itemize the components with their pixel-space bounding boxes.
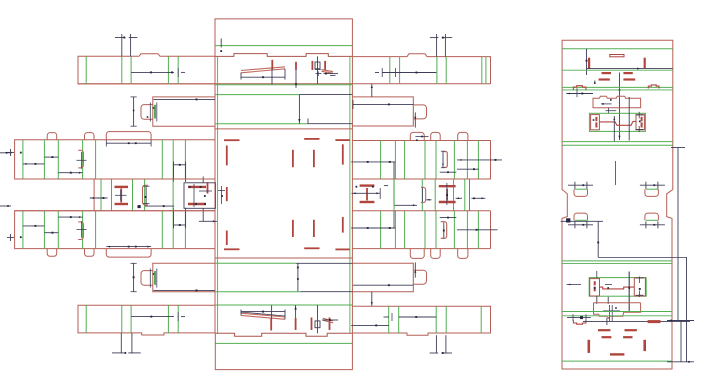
rp crease y145.2 [562, 144, 673, 146]
neckL crease 2 [111, 179, 113, 211]
strip3L crease 7 [184, 140, 186, 179]
strip4bR crease 3 [445, 306, 447, 333]
row2bL inner dim [154, 289, 216, 291]
strip4L dim b [44, 232, 58, 234]
column crease y94.6 [215, 94, 299, 96]
wedge B dim [315, 70, 338, 76]
row2L tab [141, 105, 153, 120]
strip1L crease 4 [177, 56, 179, 84]
rp step mark L [573, 86, 586, 90]
clusterA ibeam [360, 186, 375, 202]
rp center dim [618, 73, 620, 141]
neckL crease 4 [144, 179, 146, 211]
slot v 292 bot [292, 220, 294, 237]
rp tabR2 crease [646, 219, 658, 221]
strip3bL crease 0 [85, 305, 87, 333]
strip3L wide tab [106, 132, 151, 140]
strip4bR crease 4 [480, 306, 482, 333]
neckR crease 4 [421, 179, 423, 211]
strip4L right dim [174, 208, 186, 229]
slot h 335 top [335, 139, 349, 141]
slot v 325 [324, 61, 326, 70]
strip3R crease 3 [424, 141, 426, 180]
rp dim h257 [598, 256, 687, 258]
dim pair TR [430, 34, 452, 57]
rp crease y141.6 [562, 141, 673, 143]
rp center line mid [615, 161, 617, 185]
slot v 312 [311, 61, 313, 70]
slot v 313 bot [313, 220, 315, 237]
strip3L bracket [78, 150, 83, 168]
rp slot bottom center [610, 353, 624, 355]
row2bR tab crease [412, 270, 414, 284]
strip3R crease 6 [466, 141, 468, 180]
row2R tab [413, 105, 426, 119]
neckL left cut [93, 179, 95, 211]
row2bL tab crease [154, 271, 156, 285]
strip3bL crease 1 [121, 305, 123, 333]
strip4L wide tab [106, 249, 151, 258]
neckR crease 1 [434, 179, 436, 211]
slot v 226 top [226, 146, 228, 166]
rp tabL2 [574, 213, 588, 220]
rp tabL dim bot [568, 221, 593, 228]
strip3R tab1 [410, 132, 424, 140]
gapL ext dim [199, 177, 217, 223]
strip4L crease 0 [22, 211, 24, 249]
rp green box top [589, 113, 645, 131]
rp slot v BL [587, 340, 590, 353]
strip3bL dim [131, 312, 185, 321]
neckR bracket [421, 187, 426, 202]
column crease y305 [215, 304, 352, 306]
rp tabR2 [645, 213, 659, 220]
strip4bR crease 1 [398, 306, 400, 333]
row2R inner dim [353, 100, 413, 109]
strip3R dim v [394, 162, 417, 206]
slot h 224 bot [224, 248, 240, 250]
strip4R tab1 [410, 249, 424, 259]
slot v 296 [295, 62, 297, 70]
slot v 271b [270, 319, 272, 331]
strip3R crease 4 [435, 141, 437, 180]
wide tab dim b [106, 246, 151, 248]
neckL bracket [142, 185, 147, 205]
dim v 296 [295, 69, 297, 88]
rp tabL dim top [568, 182, 593, 189]
gapL cluster box [184, 183, 215, 209]
neckR ibeam dim [446, 183, 448, 205]
rp mark BL dim [567, 314, 591, 321]
rp tabR dim bot [640, 221, 665, 228]
square top dim line [308, 119, 352, 124]
top band wedge A dim [241, 69, 285, 80]
row2R tab crease [412, 105, 414, 119]
strip1L crease 1 [121, 56, 123, 84]
top flap outline [215, 19, 352, 56]
strip1R crease 1 [399, 57, 401, 84]
neckR ibeam [439, 186, 456, 202]
row2bR v dim [414, 262, 416, 277]
strip3L crease 5 [161, 140, 163, 179]
far-left tick a [0, 152, 12, 154]
bottom notch cut line [215, 333, 352, 336]
column left crease [217, 56, 219, 333]
rp crease y315.8 [562, 315, 672, 317]
rp outer dim A [671, 148, 685, 321]
strip4R dim v [393, 211, 395, 228]
neckL crease 1 [100, 179, 102, 211]
row2b crease line [215, 291, 352, 293]
rp tabL1 crease [575, 188, 587, 190]
neckR crease 0 [393, 179, 395, 211]
column left cut edge [214, 56, 216, 333]
rp sq TR slots [641, 117, 643, 128]
neckR right cut [469, 179, 471, 211]
square bottom cut [215, 257, 352, 259]
rp slot rect [610, 55, 624, 57]
bot band wedge A [241, 313, 285, 319]
row2bR inner dim [353, 284, 413, 286]
slot v 313 top [313, 150, 315, 167]
slot v 329b [329, 318, 331, 331]
strip3R outline [352, 141, 490, 180]
slot v 342 bot [342, 217, 344, 233]
rp crease y361.1 [562, 360, 672, 362]
bot band wedge B [323, 318, 333, 323]
strip4R crease 2 [404, 211, 406, 249]
rp slot v 644 [644, 58, 646, 68]
rp cluster top dims [593, 97, 644, 142]
strip3R tab dim [415, 136, 428, 141]
neckL crease 5 [172, 179, 174, 211]
strip4R dim c [440, 217, 457, 219]
row2bL panel [153, 263, 215, 291]
slot h 335 bot [335, 248, 349, 250]
slot v 311b [311, 318, 313, 331]
column right crease [349, 56, 351, 333]
strip3L crease 4 [95, 140, 97, 179]
dim v 317b [317, 305, 319, 333]
strip3R crease 7 [477, 141, 479, 180]
bandL bottom edge [15, 210, 215, 212]
rp tabR1 crease [646, 188, 658, 190]
rp crease y263.4 [562, 262, 672, 264]
strip3L crease 2 [57, 140, 59, 179]
strip4bR outline [352, 306, 490, 335]
row2L tab crease [154, 105, 156, 119]
strip3R bracket [441, 151, 447, 168]
strip4L tab2 [85, 249, 95, 257]
slot v 292 top [292, 150, 294, 167]
rp hat shape [593, 96, 641, 107]
row2L height dim [131, 97, 137, 126]
strip4L crease 3 [82, 211, 84, 249]
dim v 272 [271, 68, 273, 84]
clusterA dims [352, 186, 389, 199]
top band wedge B [322, 70, 333, 74]
strip4L bracket [78, 222, 83, 240]
rp crease y260.9 [562, 260, 672, 262]
column right cut edge [351, 56, 353, 333]
square bottom crease [215, 262, 296, 264]
neckL bracket dim [143, 186, 150, 204]
gapL slot v [207, 182, 209, 194]
strip3R tab2 [431, 132, 440, 140]
strip3L tab1 [47, 133, 57, 140]
strip4R crease 7 [477, 211, 479, 249]
strip4L crease 4 [95, 211, 97, 249]
top band wedge A [241, 67, 285, 73]
gapL slot top [188, 186, 206, 188]
strip4R bottom edge [352, 211, 490, 249]
neckR bracket dim [422, 188, 431, 202]
right piece outline [562, 40, 673, 369]
flap top dim tick [220, 39, 222, 53]
strip4L left tick [7, 234, 22, 241]
neckR crease 2 [453, 179, 455, 211]
strip4R crease 1 [394, 211, 396, 249]
rp sq BL [590, 279, 600, 296]
slot h 304 bot [304, 247, 319, 249]
bottom flap outline [215, 333, 352, 369]
strip3L outline [15, 140, 215, 179]
row2bR bottom dim [371, 292, 373, 307]
strip3R dim c [440, 171, 457, 173]
row2L inner dim [154, 98, 216, 100]
strip1L crease 2 [130, 56, 132, 84]
square top cut [215, 128, 352, 130]
strip4L cross tick [77, 221, 87, 238]
strip3L tab2 [85, 133, 95, 140]
bandR top edge [352, 178, 490, 180]
strip4bR dim b [351, 324, 389, 326]
square bottom dim line [296, 262, 352, 264]
small dark rect b [315, 321, 320, 328]
rp bottom dim line [583, 318, 690, 325]
rp outer tick 361 [667, 320, 694, 363]
wide tab dim [106, 140, 151, 147]
row2bL tab dim [150, 269, 157, 288]
rp crease y48.7 [562, 48, 673, 50]
rp connect top [599, 121, 636, 125]
strip4L dim c [58, 216, 82, 218]
small dark rect [315, 62, 320, 69]
strip1R outline [352, 54, 490, 84]
strip4R tab2 [431, 249, 440, 259]
row2R v dim [414, 112, 416, 127]
row2bR panel [352, 263, 413, 291]
neckL ibeam [115, 187, 129, 204]
strip3bL outline [78, 305, 215, 335]
rp top dim h [587, 68, 673, 70]
strip4R dim b [457, 229, 498, 231]
strip4L crease 6 [172, 211, 174, 249]
strip1L outline [78, 54, 215, 84]
slot v 272 [271, 60, 273, 70]
strip3R crease 5 [453, 141, 455, 180]
strip3bL crease 4 [177, 305, 179, 333]
strip4L outline [15, 211, 215, 249]
strip4L crease 2 [57, 211, 59, 249]
rp small mark [594, 81, 596, 85]
strip3L dim a [23, 163, 45, 165]
rp slots row1 [602, 72, 633, 74]
rp red mark BL [573, 320, 586, 324]
rp green box bot [589, 278, 646, 297]
rp hat dims [601, 99, 616, 114]
strip3R crease 2 [404, 141, 406, 180]
column dim y94.6 [299, 94, 352, 96]
slot v 226 mid [226, 187, 228, 201]
rp slot v BR [643, 340, 646, 351]
bottom flap crease [215, 342, 352, 344]
strip3L crease 0 [22, 140, 24, 179]
strip4R crease 6 [466, 211, 468, 249]
strip3L cross tick [77, 152, 87, 169]
strip4L tab1 [47, 249, 57, 257]
strip3R crease 1 [394, 141, 396, 180]
strip row bottom line [78, 83, 491, 85]
strip4R crease 5 [453, 211, 455, 249]
rp sq TR [636, 115, 644, 130]
slot v 226 bot [226, 231, 228, 246]
dim pair BR [430, 335, 452, 354]
bot band wedge A dim [241, 310, 285, 320]
strip3L crease 1 [43, 140, 45, 179]
rp cluster bot dims [567, 271, 644, 311]
strip3L dim b [44, 156, 58, 158]
rp tabR dim top [640, 182, 665, 189]
strip4bR dim a [384, 313, 437, 321]
slot v 342 top [342, 144, 344, 164]
dim pair TL [115, 34, 137, 56]
rp tub dims [603, 305, 620, 321]
row2R top dim [371, 84, 373, 97]
strip1L crease 3 [167, 56, 169, 84]
rp outer dim B [686, 257, 688, 361]
strip3R dim b [457, 159, 502, 161]
bandR dim b [472, 197, 486, 199]
slot h 224 top [224, 139, 240, 141]
rp connect bot [600, 287, 635, 289]
row2bL tab [141, 271, 153, 286]
strip3R dim b2 [457, 168, 479, 170]
rp tabL2 crease [575, 219, 587, 221]
rp sq TL [591, 115, 600, 130]
strip1R crease 2 [436, 57, 438, 84]
strip3R dim a [351, 161, 395, 163]
rp crease y89.9 [562, 89, 673, 91]
top flap crease [215, 45, 352, 47]
strip3L crease 3 [82, 140, 84, 179]
strip1L dim [131, 68, 185, 77]
strip4R crease 3 [424, 211, 426, 249]
far-left tick b [0, 205, 11, 207]
neckL ibeam dims [90, 190, 127, 201]
strip4R crease 4 [435, 211, 437, 249]
strip3L crease 6 [172, 140, 174, 179]
strip3L dim c [58, 172, 82, 174]
strip3bL crease 3 [167, 305, 169, 333]
rp slots bot row2 [602, 336, 633, 338]
rp tabL1 [574, 189, 588, 196]
rp crease y70.2 [562, 69, 673, 71]
top notch cut line [215, 54, 352, 57]
neckR crease 3 [464, 179, 466, 211]
strip3R crease 0 [380, 141, 382, 180]
strip4L dim a [23, 225, 45, 227]
square left dim marks [218, 186, 225, 204]
slot h 304 top [304, 138, 319, 140]
rp outer tick 320 [667, 321, 694, 362]
neckL dim line [138, 205, 174, 208]
rp left dim cluster [566, 88, 593, 97]
strip3L right dim [174, 162, 186, 183]
strip4bR crease 0 [388, 306, 390, 333]
strip1R crease 3 [445, 57, 447, 84]
rp dim v598 [597, 221, 599, 257]
row2R panel [352, 97, 413, 126]
wedge B dim b [322, 319, 338, 321]
strip4L crease 7 [184, 211, 186, 249]
slot v 295b [295, 318, 297, 330]
rp long dim y221 [561, 219, 603, 222]
rp crease y87.4 [562, 86, 673, 88]
column crease y84.7 [215, 84, 352, 86]
strip3R tab3 [458, 132, 468, 140]
rp crease y311.5 [562, 311, 672, 313]
gapL inner dims [189, 184, 212, 207]
row2bR tab [413, 270, 426, 284]
strip4L crease 1 [43, 211, 45, 249]
rp red mark BR [648, 321, 660, 323]
neckL crease 3 [132, 179, 134, 211]
strip1R dim [375, 68, 436, 77]
rp sq TL slots [595, 117, 597, 128]
rp slots bot row1 [598, 329, 637, 331]
square top crease [215, 123, 308, 125]
row2L tab dim [147, 103, 157, 122]
strip1R crease 5 [485, 57, 487, 84]
dim v 295b [294, 305, 296, 318]
rp slots row2 [599, 78, 636, 80]
strip4R dim a [351, 227, 395, 229]
strip4R bracket [441, 222, 447, 239]
strip3bL crease 2 [130, 305, 132, 333]
rp sq BL slots [594, 281, 596, 291]
dim v 271b [271, 305, 273, 318]
strip4L crease 5 [161, 211, 163, 249]
dim pair BL [112, 333, 141, 354]
rp sq BR slots [639, 288, 641, 290]
lower band dim [297, 263, 299, 291]
strip4R crease 0 [380, 211, 382, 249]
row2L panel [153, 97, 215, 126]
rp top dim v [586, 49, 588, 75]
bandL top edge [15, 178, 215, 180]
bandR bottom edge [352, 210, 490, 212]
strip1R crease 0 [389, 57, 391, 84]
strip1L crease 0 [85, 56, 87, 84]
strip4R tab3 [458, 249, 468, 259]
rp slot v 589 [588, 58, 590, 69]
gapL slot bottom [188, 203, 206, 205]
rp sq BR [634, 278, 645, 296]
upper band dim [298, 95, 300, 124]
strip4bR crease 2 [435, 306, 437, 333]
strip1R crease 4 [481, 57, 483, 84]
